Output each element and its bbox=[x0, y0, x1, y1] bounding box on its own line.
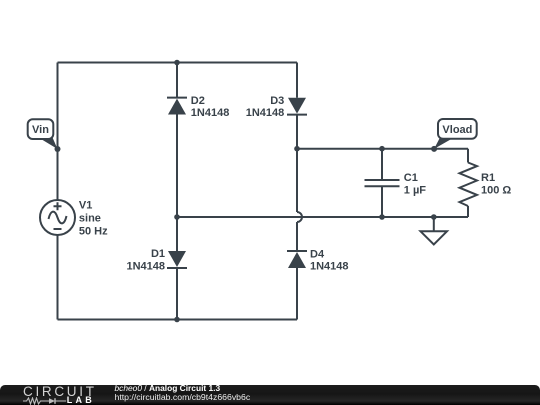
node Vin attach bbox=[55, 146, 61, 152]
flag Vload bbox=[434, 119, 477, 149]
ground bbox=[421, 217, 448, 245]
svg-text:D3: D3 bbox=[270, 95, 284, 107]
logo CIRCUIT bbox=[23, 385, 97, 399]
logo LAB bbox=[67, 396, 95, 405]
wire left vertical bottom bbox=[57, 235, 59, 320]
source V1 bbox=[40, 200, 75, 235]
flag Vin bbox=[28, 119, 58, 149]
node D3/D4 column / Vload rail bbox=[294, 146, 300, 152]
wire top rail bbox=[58, 62, 298, 64]
logo doodle resistor+diode bbox=[23, 397, 69, 405]
wire middle rail (Vout minus net) bbox=[177, 216, 468, 218]
svg-text:D1: D1 bbox=[151, 248, 165, 260]
svg-text:D2: D2 bbox=[191, 95, 205, 107]
wire D2/D1 column bbox=[176, 63, 178, 320]
svg-text:1N4148: 1N4148 bbox=[191, 107, 230, 119]
footer line 2 bbox=[115, 392, 251, 402]
wire R1 column bbox=[467, 149, 469, 217]
svg-text:100 Ω: 100 Ω bbox=[481, 185, 511, 197]
wire top-right rail (Vload net) bbox=[297, 148, 468, 150]
node bottom rail / D1 column bbox=[174, 317, 180, 323]
svg-text:V1: V1 bbox=[79, 200, 92, 212]
diode D1 bbox=[167, 251, 187, 268]
svg-text:50 Hz: 50 Hz bbox=[79, 226, 108, 238]
node middle rail / D1-D2 column bbox=[174, 214, 180, 220]
node C1 top bbox=[379, 146, 385, 152]
footer line 1 bbox=[115, 383, 221, 393]
svg-text:D4: D4 bbox=[310, 249, 325, 261]
wire left vertical top (Vin net) bbox=[57, 63, 59, 201]
svg-text:1 µF: 1 µF bbox=[404, 185, 427, 197]
node top rail / D2 column bbox=[174, 60, 180, 66]
wire D3/D4 column with hop over middle rail bbox=[297, 63, 302, 320]
svg-text:sine: sine bbox=[79, 213, 101, 225]
diode D4 bbox=[287, 251, 307, 268]
svg-text:1N4148: 1N4148 bbox=[126, 261, 165, 273]
svg-text:R1: R1 bbox=[481, 172, 495, 184]
node Vload attach bbox=[431, 146, 437, 152]
node ground attach bbox=[431, 214, 437, 220]
footer bar bbox=[0, 385, 540, 405]
diode D2 bbox=[167, 98, 187, 115]
wire C1 leads bbox=[381, 149, 383, 217]
svg-text:C1: C1 bbox=[404, 172, 418, 184]
diode D3 bbox=[287, 98, 307, 115]
capacitor C1 bbox=[365, 180, 400, 186]
node C1 bottom bbox=[379, 214, 385, 220]
svg-text:Vin: Vin bbox=[32, 124, 49, 136]
wire bottom rail bbox=[58, 319, 298, 321]
resistor R1 bbox=[460, 163, 478, 207]
svg-text:1N4148: 1N4148 bbox=[246, 107, 285, 119]
svg-text:Vload: Vload bbox=[442, 124, 472, 136]
svg-text:1N4148: 1N4148 bbox=[310, 261, 349, 273]
